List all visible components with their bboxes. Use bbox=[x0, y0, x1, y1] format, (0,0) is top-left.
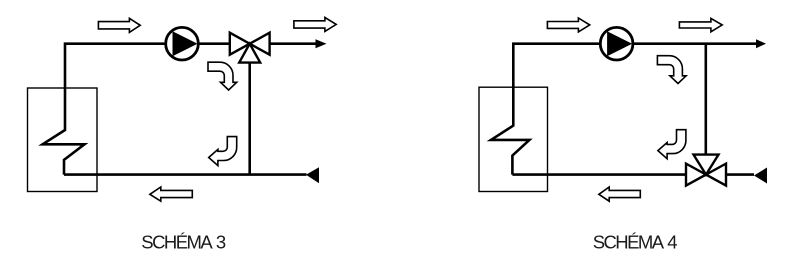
svg-text:SCHÉMA 3: SCHÉMA 3 bbox=[141, 232, 226, 253]
flow arrow (hollow, right) above supply pipe right bbox=[294, 17, 336, 31]
wire: return pipe bottom (schema 3) bbox=[64, 173, 307, 176]
svg-text:SCHÉMA 4: SCHÉMA 4 bbox=[593, 232, 678, 253]
wire: bypass vertical pipe (schema 3) bbox=[248, 44, 251, 175]
pump P1 rotor (filled triangle) bbox=[173, 31, 198, 56]
wire: bypass vertical pipe (schema 4) bbox=[704, 44, 707, 175]
curved flow arrow (bend east-to-south) below supply pipe schema 4 bbox=[657, 56, 686, 84]
3-way valve V2 top triangle bbox=[694, 155, 719, 175]
3-way valve V1 bottom triangle bbox=[239, 44, 260, 63]
wire: supply pipe with boiler heating zigzag (schema 3) bbox=[43, 44, 317, 175]
pump P2 (circle) bbox=[600, 27, 633, 60]
wire: supply pipe with boiler heating zigzag (schema 4) bbox=[491, 44, 756, 175]
flow arrow (hollow, left) below return pipe schema 4 bbox=[599, 187, 640, 201]
return inlet arrowhead (filled, left) bbox=[306, 167, 319, 183]
curved flow arrow (bend east-to-south) at valve bypass top bbox=[208, 62, 237, 90]
3-way valve V2 left triangle bbox=[686, 164, 706, 186]
curved flow arrow (bend south-to-west) above valve schema 4 bbox=[658, 130, 686, 159]
flow arrow (hollow, left) below return pipe bbox=[150, 187, 192, 201]
pump P2 rotor (filled triangle) bbox=[607, 31, 632, 56]
3-way valve V1 right triangle bbox=[250, 33, 270, 55]
supply outlet arrowhead (filled, right) bbox=[316, 39, 327, 48]
supply outlet arrowhead (filled, right) schema 4 bbox=[756, 39, 766, 48]
pump P1 (circle) bbox=[166, 27, 199, 60]
boiler B1 rectangle bbox=[28, 88, 98, 192]
flow arrow (hollow, right) above supply pipe right schema 4 bbox=[679, 18, 722, 31]
boiler B2 rectangle bbox=[479, 87, 548, 191]
3-way valve V2 right triangle bbox=[706, 164, 726, 186]
return inlet arrowhead (filled, left) schema 4 bbox=[754, 168, 767, 184]
flow arrow (hollow, right) above supply pipe left schema 4 bbox=[547, 18, 589, 32]
3-way valve V1 left triangle bbox=[230, 33, 250, 55]
wire: return pipe bottom (schema 4) bbox=[512, 173, 754, 176]
flow arrow (hollow, right) above supply pipe left bbox=[98, 18, 140, 32]
curved flow arrow (bend south-to-west) at bypass bottom bbox=[209, 137, 237, 166]
